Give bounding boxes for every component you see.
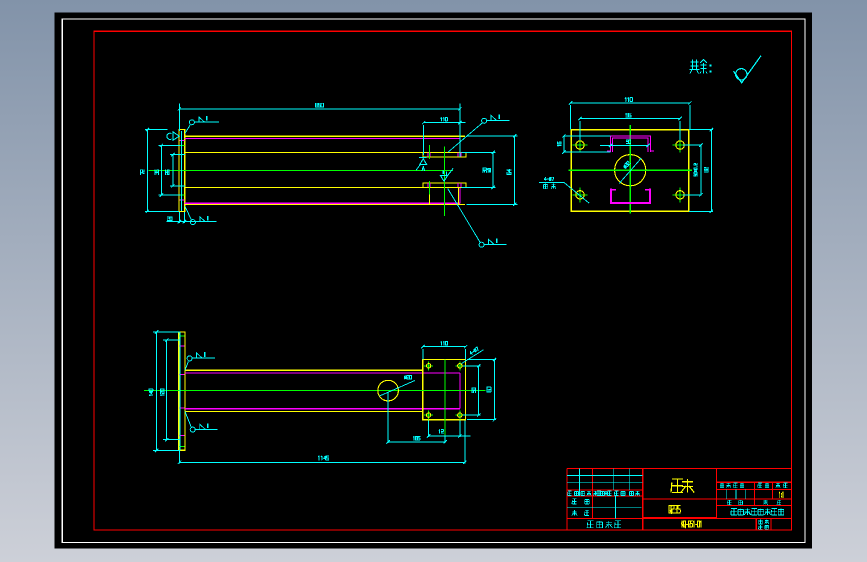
- top view flange plate (left vertical strip): [179, 130, 185, 212]
- plate view diameter leader with label: [619, 158, 641, 183]
- top view body inner bottom line magenta: [185, 202, 460, 204]
- dimension 850 top: [179, 108, 460, 110]
- red inner frame: [94, 31, 792, 530]
- top view right end plate bottom cap yellow: [423, 183, 466, 188]
- dimension 50 plate right inner: [700, 145, 702, 195]
- title block header row text biaoji chushu fenqu: [568, 491, 572, 496]
- top view body outer bottom line yellow: [185, 204, 465, 206]
- surface roughness symbol top-right with leader: [448, 123, 482, 152]
- dimension 16 plate left channel: [564, 135, 611, 137]
- dimension 185 hole to plate center: [388, 441, 445, 443]
- front view flange hidden ticks magenta: [179, 345, 184, 347]
- note qiyu text: [690, 60, 700, 74]
- dimension 12 below plate: [429, 435, 471, 437]
- dimension 50 end plate holes vertical: [478, 366, 480, 415]
- dimension 26 left inner vertical: [172, 155, 174, 186]
- top view right end plate top cap yellow: [423, 152, 466, 157]
- surface roughness symbol bottom-left with leader: [185, 206, 191, 220]
- dimension 60 end plate outer vertical: [494, 360, 496, 420]
- top view tube inner wall bottom yellow: [185, 186, 423, 188]
- top view body inner top line magenta: [185, 138, 460, 140]
- dimension 64 right vertical: [514, 136, 516, 205]
- title block company name beijing factory: [731, 508, 737, 515]
- front view flange plate strip yellow: [179, 332, 185, 450]
- front view flange centerline ticks green: [179, 335, 184, 337]
- label 4-dia7 rotated with leader front view: [462, 350, 484, 364]
- dimension 36 left middle vertical: [160, 145, 162, 195]
- title block cyan grid lines: [567, 468, 745, 518]
- plate view vertical centerline green: [629, 125, 631, 214]
- top view cap hidden hole edges magenta: [427, 153, 429, 157]
- title block sheji row text: [572, 499, 577, 504]
- surface roughness symbol top-left with leader: [185, 125, 190, 133]
- title block material Q235 yellow: [669, 505, 680, 513]
- plate view corner holes yellow with green crosshairs: [573, 144, 588, 146]
- roughness check on centerline: [440, 176, 447, 182]
- front view body inner bottom magenta: [185, 408, 460, 410]
- front view flange extension line cyan: [179, 332, 181, 450]
- title block jieduanbiaoji text: [720, 483, 724, 488]
- front view hole circle in tube yellow: [378, 380, 399, 401]
- datum A symbol: [419, 157, 427, 159]
- title block bili text: [776, 483, 781, 488]
- dimension 110 end plate top: [423, 346, 466, 348]
- title block tuyangdaihao text: [587, 521, 593, 528]
- dimension 1145 overall bottom: [180, 461, 465, 463]
- dimension 110 plate top: [571, 102, 690, 104]
- top view plate centerline green long vertical: [444, 147, 446, 217]
- top view flange mid extension line cyan: [181, 131, 183, 211]
- dimension 72 left outer vertical: [146, 130, 148, 212]
- top view main centerline green: [149, 169, 453, 171]
- front view end plate holes with green crosses: [424, 365, 433, 367]
- dimension 30 right inner vertical: [492, 152, 494, 187]
- surface roughness symbol front top with leader: [185, 361, 188, 370]
- dimension 140 front flange outer: [156, 332, 158, 450]
- dimension 120 front flange inner: [166, 340, 168, 440]
- plate view outline yellow: [571, 130, 688, 212]
- top view flange hidden-line ticks magenta: [180, 140, 185, 142]
- plate view bottom channel section magenta thick: [611, 189, 650, 203]
- surface roughness symbol bottom-right with leader: [448, 189, 481, 244]
- front view main centerline green: [144, 390, 486, 392]
- title block part name zhijia yellow: [671, 479, 683, 493]
- front view body outer bottom yellow: [185, 411, 423, 413]
- title block gong zhang di zhang text: [727, 500, 731, 505]
- title block drawing number yellow: [681, 521, 701, 528]
- top view hole centerlines green short: [429, 145, 431, 159]
- title block small cell marks: [759, 520, 763, 524]
- front view body inner top magenta: [185, 372, 460, 374]
- top view yellow verticals below bottom cap: [429, 188, 431, 204]
- front view body inner right magenta vertical: [459, 373, 461, 409]
- top view tube inner wall top yellow: [185, 151, 423, 153]
- plate view horizontal centerline green: [568, 169, 692, 171]
- plate view top channel section magenta: [611, 136, 651, 152]
- front view end plate yellow: [423, 360, 466, 420]
- front view body outer top yellow: [185, 369, 423, 371]
- title block scale 1:1 yellow: [779, 492, 783, 498]
- title block zhiliang text: [758, 483, 762, 488]
- general roughness symbol large: [734, 56, 761, 83]
- white sheet border frame: [62, 19, 805, 543]
- dimension 82 plate right outer: [710, 130, 712, 212]
- top view flange centerline ticks green: [180, 144, 185, 146]
- weld symbol left of flange: [167, 133, 172, 139]
- surface roughness symbol front bottom with leader: [185, 412, 191, 428]
- dimension 110 top right: [424, 122, 466, 124]
- dimension 20 bottom of flange: [166, 221, 216, 223]
- title block shenhe row text: [572, 510, 577, 515]
- label 4-dia7 with leader to hole: [539, 181, 564, 183]
- top view body outer top line yellow: [185, 135, 465, 137]
- title block red grid: [567, 468, 792, 530]
- dimension 96 plate holes: [580, 118, 680, 120]
- dimension 90 channel width: [600, 144, 649, 146]
- top view body right edge magenta verticals: [459, 139, 461, 153]
- plate view center hole circle yellow: [615, 155, 646, 186]
- front view plate centerline green vertical: [444, 360, 446, 436]
- front view hole leader and label dia20: [380, 380, 416, 396]
